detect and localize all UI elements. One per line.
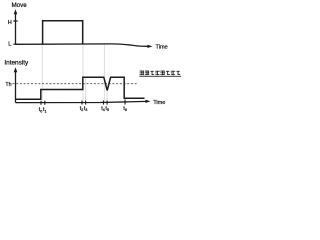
svg-text:H: H [8, 20, 12, 26]
svg-text:Time: Time [153, 100, 165, 106]
svg-text:Move: Move [12, 2, 28, 9]
svg-text:L: L [8, 41, 11, 47]
svg-text:Time: Time [156, 45, 168, 51]
svg-text:Th: Th [5, 82, 11, 88]
svg-text:Intensity: Intensity [4, 59, 29, 66]
